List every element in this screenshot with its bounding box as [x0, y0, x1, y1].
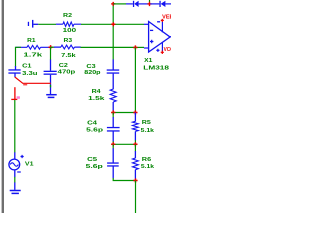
svg-text:5.1k: 5.1k [141, 128, 154, 134]
capacitor C3 [112, 59, 114, 69]
junction node feedback/plus input [133, 45, 137, 49]
svg-text:C2: C2 [59, 63, 68, 69]
wire (junction to R3) [51, 46, 55, 48]
capacitor (input coupling, right plate) [32, 20, 33, 28]
capacitor pin stub [33, 23, 38, 25]
wire (top to diode D1) [113, 3, 126, 5]
op-amp minus input pin lead [144, 23, 149, 25]
resistor R2 [56, 23, 81, 25]
capacitor C2 [50, 47, 52, 60]
node between diodes [149, 0, 151, 2]
svg-text:LM318: LM318 [143, 65, 169, 71]
wire (output net down to edge) [135, 181, 137, 214]
svg-text:R3: R3 [64, 38, 73, 44]
svg-text:R5: R5 [142, 120, 151, 126]
capacitor C2 body [50, 60, 52, 71]
svg-text:1.7k: 1.7k [23, 53, 42, 59]
wire (C4 to rung2) [112, 141, 114, 144]
junction node rung3 right [133, 178, 137, 182]
svg-text:X1: X1 [144, 58, 152, 64]
svg-text:C1: C1 [22, 63, 31, 69]
wire (R2 to node) [81, 23, 114, 25]
wire (R3 to op-amp plus input) [81, 46, 137, 48]
wire (R5 to rung2) [134, 140, 136, 144]
svg-text:R1: R1 [27, 38, 35, 44]
junction node rung1 right [133, 110, 137, 114]
wire rung 3 (bottom) [113, 178, 135, 181]
resistor R4 [110, 89, 116, 102]
svg-text:V1: V1 [25, 162, 34, 168]
capacitor C4 body [112, 117, 114, 127]
op-amp plus input marker [150, 40, 153, 43]
wire red (C1 to C2 ground net) [15, 77, 51, 83]
svg-text:R4: R4 [92, 89, 101, 95]
wire (D2 to edge) [165, 3, 171, 5]
wire (node to plus input) [135, 46, 144, 48]
op-amp X1 [149, 22, 170, 53]
svg-text:5.6p: 5.6p [86, 128, 104, 134]
junction node rung2 right [133, 142, 137, 146]
resistor R3 [54, 46, 81, 48]
op-amp minus input marker [150, 29, 153, 31]
resistor R6 body [134, 151, 136, 158]
svg-text:R2: R2 [63, 13, 72, 19]
svg-text:100: 100 [63, 28, 77, 34]
R1 left corner wire [16, 47, 22, 66]
junction node rung2 left [111, 142, 115, 146]
svg-text:820p: 820p [84, 70, 101, 76]
wire (node to D2) [150, 3, 159, 5]
resistor R1 [16, 46, 49, 48]
svg-text:C4: C4 [87, 121, 97, 127]
window border left edge [2, 0, 4, 213]
ground (C2) [46, 94, 57, 96]
svg-text:VCC: VCC [164, 47, 171, 53]
wire (feedback column from plus node down) [134, 48, 136, 113]
svg-text:VEE: VEE [162, 14, 171, 20]
ground (V1) [10, 190, 21, 192]
svg-text:R6: R6 [142, 157, 151, 163]
node junction top [111, 2, 115, 6]
wire (node to op-amp minus input) [113, 23, 144, 25]
op-amp VCC pin (bottom) [161, 42, 163, 51]
diode D2 body [159, 1, 160, 7]
svg-text:3.3u: 3.3u [22, 71, 37, 77]
svg-text:7.5k: 7.5k [61, 53, 75, 59]
svg-text:5.6p: 5.6p [86, 164, 104, 170]
diode D1 [133, 1, 134, 7]
svg-text:C5: C5 [87, 157, 97, 163]
capacitor C1 [15, 66, 17, 70]
capacitor (input coupling, left plate) [28, 22, 29, 26]
wire (D1 to node) [139, 3, 149, 5]
wire (top net vertical) [112, 4, 114, 60]
capacitor C5 body [112, 148, 114, 163]
source V1 [14, 152, 16, 159]
wire (cap to R2) [38, 23, 56, 25]
junction node rung1 left [111, 110, 115, 114]
capacitor C4 [112, 113, 114, 118]
wire rung 1 [113, 112, 135, 114]
capacitor C5 [112, 144, 114, 148]
svg-text:470p: 470p [58, 70, 76, 76]
svg-text:5.1k: 5.1k [141, 164, 154, 170]
resistor R5 [134, 113, 136, 122]
probe marker (red cross with flag) [14, 87, 16, 100]
op-amp VEE pin (top) [161, 22, 163, 33]
wire red fleck [23, 84, 27, 86]
wire rung 2 [113, 143, 135, 145]
op-amp plus input pin lead [144, 47, 149, 49]
resistor R6 [134, 144, 136, 151]
junction node row1/vertical [111, 22, 115, 26]
wire stub green on C2 lead [50, 85, 52, 88]
wire (marker to V1) [14, 100, 16, 153]
junction node R1/R3/C2 [49, 45, 53, 49]
svg-text:1.5k: 1.5k [88, 96, 104, 102]
diode D1 anode lead [126, 3, 133, 5]
op-amp output wire [170, 36, 171, 38]
